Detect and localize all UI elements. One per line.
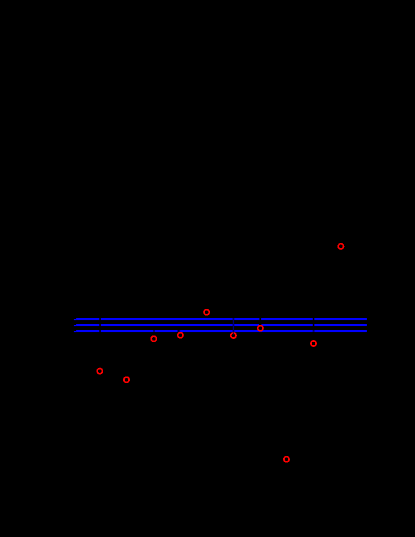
node marker: unconnected end below bus at x=180 — [178, 333, 183, 338]
node marker: unconnected end on bus line 2/3 at x=260 — [258, 326, 263, 331]
node marker: unconnected end lower left A — [97, 369, 102, 374]
node marker: unconnected end lower left B — [124, 377, 129, 382]
wire stub: navy remnant in line-3 gap above node at x=313.5 — [313, 330, 314, 332]
node marker: isolated unconnected end upper right — [338, 244, 343, 249]
bus line 1 (top) — [74, 318, 367, 320]
wire stub: navy remnant in line-3 gap above node at x=154 — [153, 330, 154, 332]
node marker: unconnected end at bottom of vertical wire x=233.5 — [231, 333, 236, 338]
wire: vertical net continues into node marker (dark notch) — [233, 332, 234, 335]
wire stub: navy remnant in line-3 gap above node at x=180 — [179, 330, 180, 332]
node marker: unconnected end below bus at x=154 — [151, 336, 156, 341]
bus line 2 (middle) — [74, 324, 367, 326]
bus line 3 (bottom) — [74, 330, 367, 332]
node marker: isolated unconnected end lower right — [284, 457, 289, 462]
node marker: unconnected end above bus line 1 — [204, 310, 209, 315]
wire: vertical net segment at x=233.5 from bus line 1 down to node marker — [233, 318, 234, 333]
node marker: unconnected end below bus at x=313.5 — [311, 341, 316, 346]
